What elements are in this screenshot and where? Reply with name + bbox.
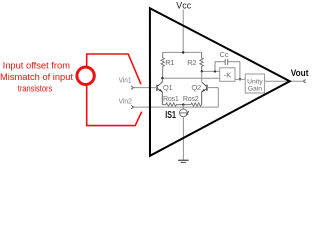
svg-text:R1: R1 xyxy=(165,58,174,67)
junction dot Cc left tap xyxy=(214,70,216,72)
svg-text:Cc: Cc xyxy=(220,50,229,59)
port Vin1 terminal xyxy=(131,86,134,89)
unity gain buffer U2 xyxy=(245,74,264,93)
Q1 emitter arrow xyxy=(159,89,162,92)
port Vin2 terminal xyxy=(131,105,134,108)
svg-text:Vout: Vout xyxy=(291,68,309,79)
svg-text:Q1: Q1 xyxy=(163,83,173,92)
wire -K output to unity gain buffer xyxy=(235,78,245,80)
wire node B from R2 bottom to Cc tap xyxy=(202,70,220,72)
Q2 emitter arrow xyxy=(202,89,205,92)
svg-text:Vcc: Vcc xyxy=(176,1,191,12)
capacitor Cc xyxy=(215,59,240,79)
svg-text:Vin1: Vin1 xyxy=(119,76,132,85)
wire Vin2 right run xyxy=(134,106,219,108)
current source IS1 xyxy=(180,109,188,117)
op-amp U1 body triangle xyxy=(150,8,290,156)
junction dot Vcc / top rail xyxy=(182,51,184,53)
svg-text:IS1: IS1 xyxy=(165,110,176,121)
wire R2 column down to Q2 collector xyxy=(201,71,203,81)
svg-text:-K: -K xyxy=(224,70,231,79)
svg-text:Q2: Q2 xyxy=(191,83,201,92)
transistor Q2 xyxy=(202,82,207,105)
resistor R2 xyxy=(200,52,203,71)
junction dot R2 bottom node xyxy=(201,70,203,72)
resistor Ros2 xyxy=(183,103,201,106)
svg-text:Input offset from: Input offset from xyxy=(3,61,70,72)
wire center node to IS1 xyxy=(182,105,184,110)
wire node A from R1/Q1 collector to -K input xyxy=(162,77,219,79)
transistor Q1 xyxy=(157,78,162,104)
svg-text:Mismatch of input: Mismatch of input xyxy=(0,72,73,83)
wire IS1 to ground xyxy=(182,117,184,160)
wire unity gain output through apex to Vout xyxy=(265,80,304,82)
resistor Ros1 xyxy=(162,103,183,106)
wire Vin1 to Q1 base xyxy=(134,87,158,89)
resistor R1 xyxy=(161,52,164,78)
ground xyxy=(178,159,189,161)
wire Vcc down to top rail xyxy=(182,10,184,53)
junction dot R1 bottom node xyxy=(161,77,163,79)
gain block -K xyxy=(220,68,235,82)
annotation red bracket xyxy=(87,54,142,126)
wire Vin2 vertical up xyxy=(217,88,219,108)
wire top rail xyxy=(163,51,202,53)
svg-text:Gain: Gain xyxy=(248,85,263,92)
svg-text:Vin2: Vin2 xyxy=(119,96,132,105)
annotation red circle xyxy=(77,67,94,84)
wire Vin2 to Q2 base xyxy=(207,87,218,89)
svg-text:R2: R2 xyxy=(187,58,196,67)
svg-text:Ros1: Ros1 xyxy=(163,96,179,103)
port Vout terminal xyxy=(303,80,305,83)
junction dot emitter center node xyxy=(182,103,184,105)
svg-text:transistors: transistors xyxy=(18,83,53,94)
svg-text:Ros2: Ros2 xyxy=(183,96,199,103)
junction dot Cc right tap xyxy=(239,78,241,80)
